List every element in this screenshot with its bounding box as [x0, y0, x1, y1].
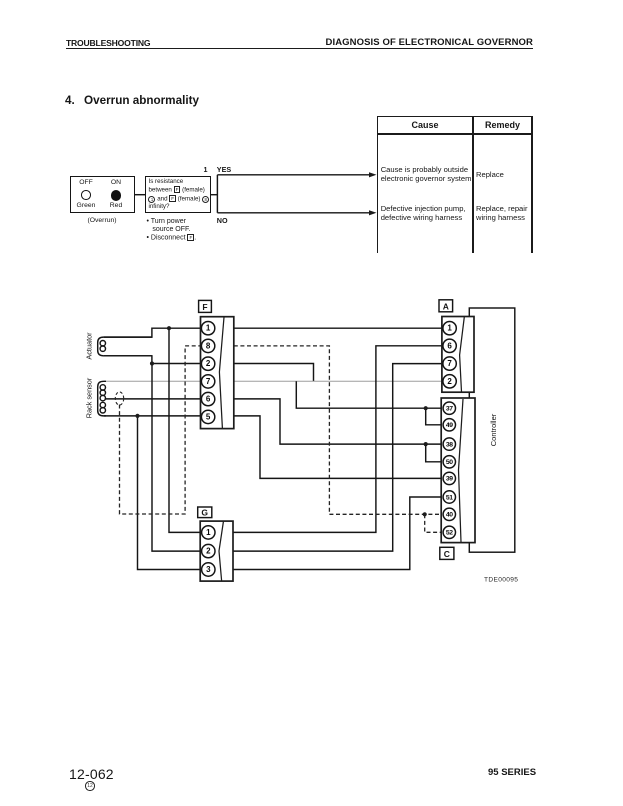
svg-text:G: G — [201, 508, 208, 518]
cause/remedy table top border — [377, 116, 533, 118]
lamp green (open circle) — [81, 190, 91, 200]
dashed wire: rack sensor tap point to pin F8 — [120, 346, 201, 514]
table row2 remedy — [476, 204, 528, 222]
connector C pins 37,49,38,50,39,51,40,52 — [443, 402, 455, 539]
dashed wire link pins 40-52 — [425, 514, 444, 532]
pin G1 — [202, 526, 215, 539]
svg-text:8: 8 — [206, 341, 211, 350]
connector G label box — [198, 507, 212, 518]
lamp red (filled circle) — [111, 190, 121, 200]
svg-text:37: 37 — [446, 406, 453, 413]
wire tap to pin 37 — [296, 381, 444, 408]
pin C39 — [443, 472, 455, 484]
pin C50 — [443, 456, 455, 468]
footer circled 12 — [85, 781, 94, 790]
svg-text:6: 6 — [206, 395, 211, 404]
wire F7: rack sensor top to pin A2 (faint) — [104, 380, 444, 382]
junction node on F5 wire — [135, 414, 139, 418]
svg-text:49: 49 — [446, 422, 453, 429]
wire F2: actuator bottom lead, down to node line — [104, 356, 314, 381]
wire F6: rack sensor tap to pin 38 — [105, 399, 444, 444]
svg-text:38: 38 — [446, 441, 453, 448]
junction node on F2 wire — [150, 361, 154, 365]
junction node on F1 wire — [167, 326, 171, 330]
pin A2 — [443, 375, 456, 388]
svg-text:5: 5 — [206, 412, 211, 421]
svg-text:2: 2 — [447, 377, 452, 386]
wire F5: rack sensor bottom lead to pin 39 — [104, 416, 444, 479]
svg-text:F: F — [202, 302, 207, 312]
junction node on 37 wire — [424, 406, 428, 410]
svg-text:3: 3 — [206, 565, 211, 574]
wire F1: actuator top lead to pin A1 — [104, 328, 444, 337]
pin F2 — [201, 357, 214, 370]
label Green — [71, 202, 101, 209]
svg-text:2: 2 — [206, 359, 211, 368]
svg-text:C: C — [444, 549, 450, 559]
indicator lamp box (Overrun) — [70, 176, 135, 213]
pin F1 — [201, 322, 214, 335]
label ON — [101, 179, 131, 186]
table middle border — [472, 116, 474, 253]
footer page number — [69, 766, 114, 782]
connector A pins 1,6,7,2 — [443, 322, 456, 388]
label YES — [217, 165, 231, 174]
header left title — [66, 38, 150, 48]
connector F pins 1,8,2,7,6,5 — [201, 322, 214, 424]
pin A7 — [443, 357, 456, 370]
table row1 remedy — [476, 170, 504, 179]
svg-text:1: 1 — [206, 528, 211, 537]
pin F8 — [201, 339, 214, 352]
pin A1 — [443, 322, 456, 335]
pin G2 — [202, 544, 215, 557]
wire branch G1: node on F1 wire to G1 to pin A6 — [169, 328, 444, 532]
connector F label box — [199, 300, 212, 312]
table row1 cause — [381, 165, 472, 183]
header rule — [66, 48, 533, 50]
connector F body — [201, 317, 234, 429]
rack sensor coil — [98, 381, 106, 416]
label Red — [101, 202, 131, 209]
wire link pins 37-49 — [426, 408, 444, 425]
NO arrowhead — [369, 210, 377, 215]
svg-text:40: 40 — [446, 512, 453, 519]
decision box — [145, 176, 211, 213]
note bullets under decision box — [147, 218, 197, 243]
pin F6 — [201, 392, 214, 405]
table right border — [531, 116, 533, 253]
pin F5 — [201, 410, 214, 423]
connector G pins 1,2,3 — [202, 526, 215, 577]
table header Remedy — [473, 120, 532, 130]
pin C37 — [443, 402, 455, 414]
table header Cause — [377, 120, 473, 130]
svg-text:1: 1 — [447, 324, 452, 333]
connector A label box — [439, 300, 453, 312]
label OFF — [71, 179, 101, 186]
wire lamp box to decision box — [135, 194, 145, 196]
YES arrow to table row1 — [217, 174, 371, 176]
section heading — [65, 94, 75, 107]
svg-text:7: 7 — [447, 359, 452, 368]
dashed measuring point ellipse on rack sensor tap — [115, 392, 123, 405]
controller box — [469, 308, 515, 552]
wire branch G2: node on F2 wire to G2 to pin A7 — [152, 364, 444, 552]
svg-text:Actuator: Actuator — [85, 332, 94, 360]
connector C label box — [440, 547, 454, 559]
pin C52 — [443, 526, 455, 538]
actuator coil — [98, 337, 152, 356]
footer series — [488, 767, 536, 778]
wire link pins 38-50 — [426, 444, 444, 462]
table left border — [377, 116, 379, 253]
pin C51 — [443, 491, 455, 503]
YES arrowhead — [369, 172, 377, 177]
pin C40 — [443, 508, 455, 520]
svg-text:52: 52 — [446, 530, 453, 537]
pin C49 — [443, 419, 455, 431]
svg-text:2: 2 — [206, 547, 211, 556]
label (Overrun) — [70, 217, 134, 224]
dashed wire: pin F8 to pin 40 — [234, 346, 444, 514]
svg-text:1: 1 — [206, 324, 211, 333]
label 1 — [204, 165, 208, 174]
pin G3 — [202, 563, 215, 576]
connector G body — [200, 521, 233, 581]
svg-text:7: 7 — [206, 377, 211, 386]
wire branch G3: node on F5 wire to G3 to pin 51 — [138, 416, 445, 570]
wire decision box to branch — [211, 194, 217, 196]
svg-text:Controller: Controller — [489, 413, 498, 446]
junction node on 38 wire — [424, 442, 428, 446]
svg-text:39: 39 — [446, 476, 453, 483]
header right title — [326, 37, 534, 48]
pin F7 — [201, 375, 214, 388]
label NO — [217, 216, 228, 225]
junction node on 40 dashed wire — [423, 512, 427, 516]
pin C38 — [443, 438, 455, 450]
table header underline — [377, 133, 533, 135]
branch vertical — [216, 175, 218, 213]
svg-text:Rack sensor: Rack sensor — [85, 377, 94, 418]
svg-text:A: A — [443, 301, 449, 311]
svg-text:51: 51 — [446, 494, 453, 501]
table row2 cause — [381, 204, 466, 222]
svg-text:6: 6 — [447, 341, 452, 350]
svg-text:TDE00095: TDE00095 — [484, 577, 518, 584]
connector A body — [442, 317, 474, 393]
connector C body — [441, 398, 475, 543]
NO arrow to table row2 — [217, 212, 371, 214]
svg-text:50: 50 — [446, 459, 453, 466]
pin A6 — [443, 339, 456, 352]
